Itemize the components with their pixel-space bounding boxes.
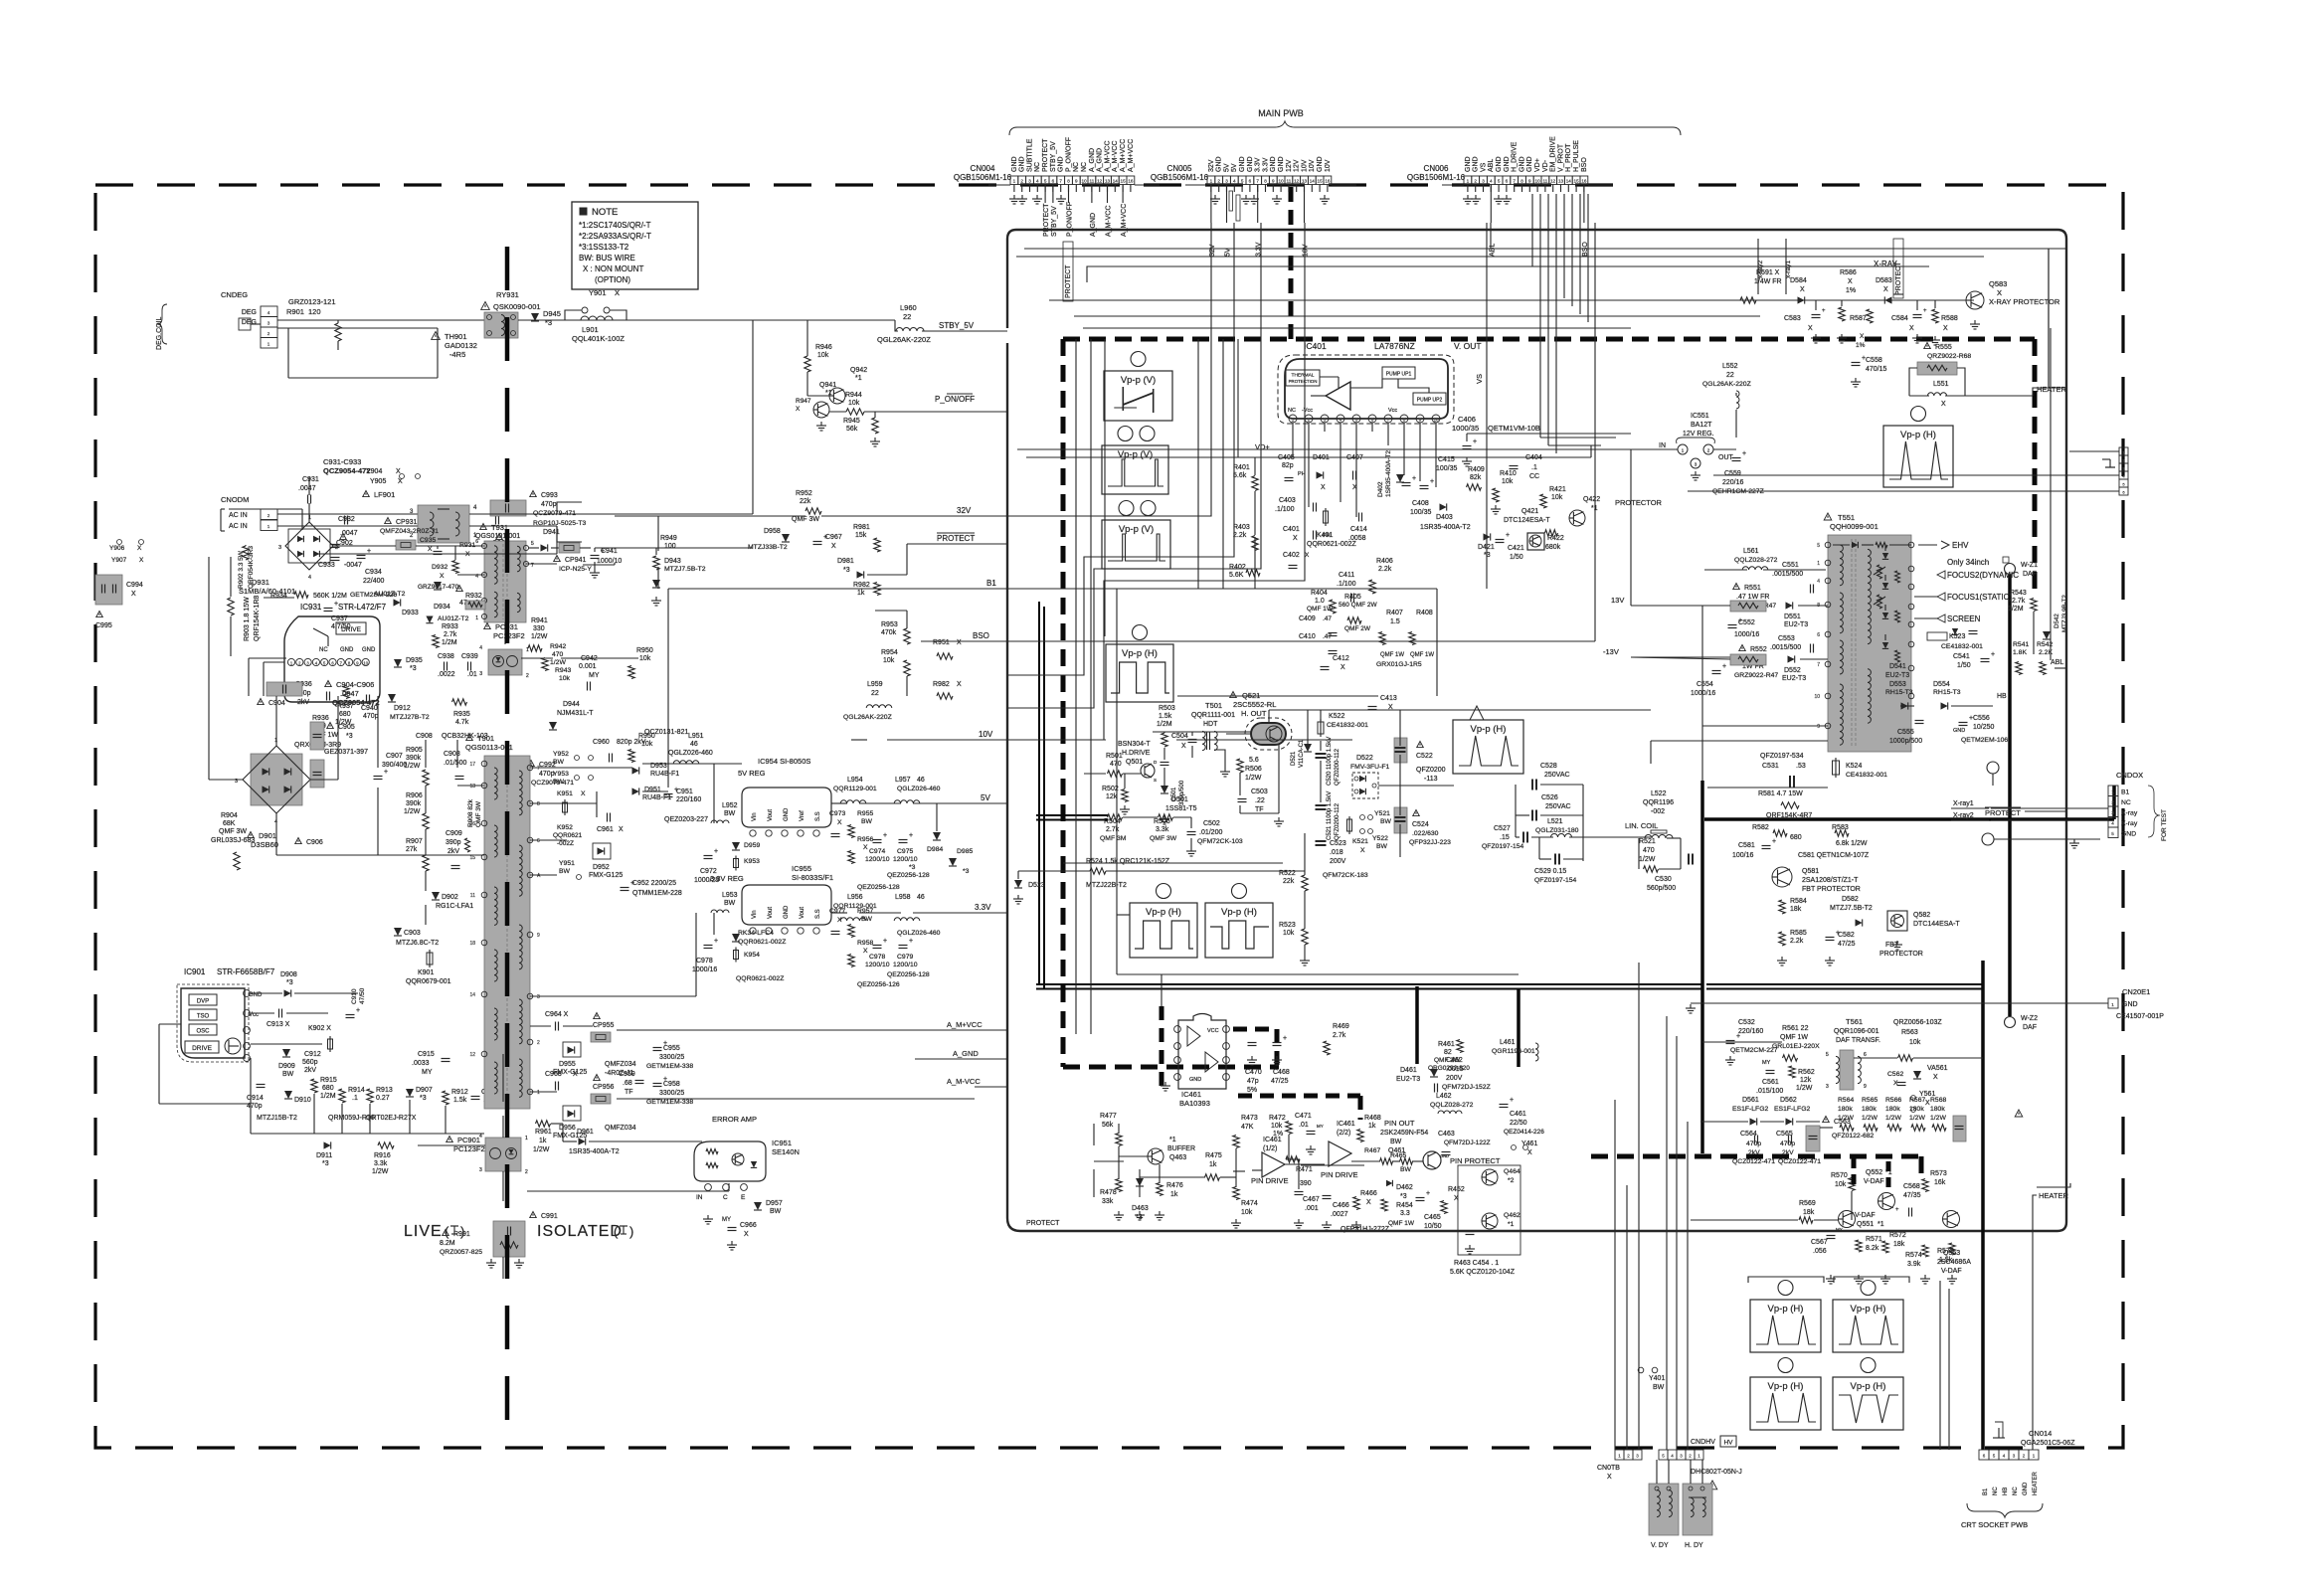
svg-text:.0047: .0047 — [298, 485, 316, 492]
svg-text:180k: 180k — [1909, 1106, 1924, 1113]
svg-text:GND: GND — [1440, 1153, 1449, 1158]
wire fan 4 — [1049, 299, 1870, 301]
svg-text:3: 3 — [278, 545, 281, 551]
svg-text:R502: R502 — [1102, 786, 1119, 792]
svg-text:X: X — [615, 288, 620, 297]
fuse K523 — [1927, 632, 1947, 640]
svg-text:C470: C470 — [1245, 1069, 1262, 1076]
svg-text:R587: R587 — [1850, 315, 1867, 322]
capacitor C964 X — [555, 1022, 557, 1031]
svg-text:1/2W: 1/2W — [1639, 856, 1656, 863]
svg-text:R478: R478 — [1100, 1189, 1117, 1196]
svg-text:FMX-G125: FMX-G125 — [589, 872, 623, 879]
svg-text:*1: *1 — [1508, 1221, 1515, 1228]
svg-text:P_ON/OFF: P_ON/OFF — [1065, 137, 1072, 172]
svg-text:QGA2501C5-06Z: QGA2501C5-06Z — [2021, 1440, 2075, 1447]
svg-text:2SC4686A: 2SC4686A — [1937, 1259, 1971, 1266]
svg-text:A_M-VCC: A_M-VCC — [947, 1077, 981, 1086]
waveform box BR3 — [1750, 1377, 1821, 1430]
svg-text:32V: 32V — [1209, 244, 1216, 257]
wires AC filter out — [469, 513, 557, 515]
svg-text:200V: 200V — [1446, 1075, 1463, 1082]
svg-text:R982: R982 — [933, 681, 950, 688]
svg-text:*3: *3 — [909, 864, 916, 871]
svg-text:IC461: IC461 — [1337, 1121, 1355, 1128]
svg-text:2SA1208/ST/Z1-T: 2SA1208/ST/Z1-T — [1802, 877, 1859, 884]
svg-text:IC551: IC551 — [1691, 413, 1709, 420]
flyback internal resistors — [1895, 571, 1900, 583]
heavy vertical wire C531 feed — [1700, 781, 1704, 1153]
svg-text:C934: C934 — [365, 569, 382, 576]
svg-text:680: 680 — [339, 711, 351, 718]
svg-text:R477: R477 — [1100, 1113, 1117, 1120]
svg-text:2: 2 — [1308, 418, 1311, 423]
svg-text:C933: C933 — [318, 562, 335, 569]
svg-text:47/25: 47/25 — [1271, 1078, 1289, 1085]
svg-text:*3:1SS133-T2: *3:1SS133-T2 — [579, 243, 629, 252]
svg-text:GND: GND — [1239, 156, 1246, 172]
svg-text:X-RAY: X-RAY — [1874, 260, 1898, 268]
IC IC461 BA10393 dual comparator — [1178, 1014, 1226, 1090]
svg-text:C413: C413 — [1380, 695, 1397, 702]
wire heater right — [2033, 1195, 2037, 1450]
svg-text:T501: T501 — [1205, 701, 1222, 710]
bold dashed boundary bottom — [1063, 1065, 1279, 1070]
svg-text:Y907: Y907 — [111, 557, 127, 564]
svg-text:X: X — [1933, 1074, 1938, 1081]
wire fan 6 — [1083, 327, 1631, 329]
svg-text:TH901: TH901 — [445, 332, 467, 341]
svg-text:NJM431L-T: NJM431L-T — [557, 710, 594, 717]
svg-text:R941: R941 — [531, 617, 548, 624]
diode D984 — [933, 832, 941, 840]
svg-text:W-Z2: W-Z2 — [2021, 1015, 2038, 1022]
diode D961 — [579, 1138, 586, 1144]
svg-text:10k: 10k — [817, 352, 829, 359]
main PWB solid outline box — [1007, 230, 2066, 1231]
svg-text:5.6K: 5.6K — [1229, 572, 1244, 579]
svg-text:R570: R570 — [1831, 1172, 1848, 1179]
svg-text:47p: 47p — [1247, 1078, 1259, 1085]
svg-text:4: 4 — [1490, 179, 1493, 184]
svg-text:C567: C567 — [1811, 1239, 1828, 1246]
svg-text:IC461: IC461 — [1263, 1137, 1282, 1143]
svg-text:5: 5 — [1498, 179, 1501, 184]
svg-text:4.7k: 4.7k — [455, 719, 469, 726]
wire right column x1712 up — [1701, 606, 1703, 781]
wire ABL right vertical — [2050, 328, 2052, 660]
svg-text:QETM2EM-106: QETM2EM-106 — [1961, 737, 2008, 744]
svg-text:C562: C562 — [1887, 1071, 1903, 1078]
svg-text:-113: -113 — [1424, 776, 1438, 783]
svg-text:2: 2 — [1217, 179, 1220, 184]
svg-text:H. OUT: H. OUT — [1241, 709, 1267, 718]
svg-text:22: 22 — [1726, 372, 1734, 379]
svg-text:SCREEN: SCREEN — [1947, 614, 1981, 623]
svg-text:.01: .01 — [467, 671, 477, 678]
svg-text:-4R5: -4R5 — [449, 350, 465, 359]
optocoupler PC931 — [484, 623, 491, 629]
svg-text:*1: *1 — [855, 375, 862, 382]
svg-text:13: 13 — [469, 784, 475, 789]
svg-text:BA10393: BA10393 — [1179, 1099, 1210, 1108]
svg-text:D912: D912 — [394, 705, 411, 712]
wire 32V drop — [1007, 223, 1211, 516]
capacitor C524 gray — [1394, 807, 1407, 833]
svg-text:GND: GND — [2023, 1482, 2029, 1495]
svg-text:-13V: -13V — [1603, 647, 1619, 656]
wire mid horizontal 700 — [1177, 695, 1378, 697]
svg-text:GND: GND — [1504, 156, 1511, 172]
svg-text:HEATER: HEATER — [2033, 1471, 2039, 1495]
svg-text:C526: C526 — [1541, 794, 1558, 801]
svg-text:R567: R567 — [1909, 1097, 1925, 1104]
svg-text:GND: GND — [1278, 156, 1285, 172]
svg-text:1/2M: 1/2M — [320, 1093, 336, 1100]
svg-text:1/2W: 1/2W — [1862, 1115, 1877, 1122]
svg-text:R954: R954 — [881, 649, 898, 656]
svg-text:T561: T561 — [1846, 1017, 1863, 1026]
svg-text:NC: NC — [1288, 408, 1296, 414]
svg-text:ABL: ABL — [1488, 159, 1495, 172]
svg-text:R949: R949 — [660, 535, 677, 542]
svg-text:QGLZ026-460: QGLZ026-460 — [897, 786, 941, 792]
svg-text:R524 1.5k QRC121K-152Z: R524 1.5k QRC121K-152Z — [1086, 858, 1170, 865]
capacitor C941 — [591, 555, 600, 557]
diode D956 boxed — [563, 1106, 581, 1121]
capacitor C991 — [530, 1212, 537, 1218]
svg-text:QQLZ028-272: QQLZ028-272 — [1430, 1102, 1474, 1109]
EHV output arrow — [1918, 544, 1937, 546]
svg-text:C973: C973 — [829, 810, 845, 817]
svg-text:4: 4 — [308, 575, 311, 581]
svg-text:2.7k: 2.7k — [1333, 1032, 1346, 1039]
svg-text:7: 7 — [1059, 179, 1062, 184]
svg-text:QETM2CM-227: QETM2CM-227 — [1730, 1047, 1778, 1054]
svg-text:R503: R503 — [1159, 705, 1175, 712]
svg-text:100/35: 100/35 — [1436, 465, 1458, 472]
svg-text:L552: L552 — [1722, 363, 1738, 370]
waveform box Vp-p V pulses — [1102, 445, 1168, 494]
wire T501 rail — [1153, 731, 1269, 733]
svg-text:10k: 10k — [1283, 930, 1295, 937]
svg-text:C939: C939 — [461, 653, 478, 660]
svg-text:A_GND: A_GND — [953, 1049, 979, 1058]
svg-text:+: + — [1283, 1035, 1287, 1042]
svg-text:.01/500: .01/500 — [444, 760, 466, 767]
svg-text:12: 12 — [1550, 179, 1556, 184]
svg-text:IC401: IC401 — [1304, 341, 1327, 351]
svg-text:QQL401K-100Z: QQL401K-100Z — [572, 334, 625, 343]
chassis ground CN014 — [1998, 1428, 2000, 1438]
svg-text:C410: C410 — [1299, 633, 1316, 640]
wire stby to L960 — [895, 320, 898, 331]
svg-text:K952: K952 — [557, 824, 573, 831]
svg-text:QRZ9022-R68: QRZ9022-R68 — [1927, 353, 1971, 360]
svg-text:BW: BW — [1376, 843, 1388, 850]
svg-text:4: 4 — [479, 645, 482, 651]
wires CN006 drop bends — [1540, 437, 1616, 439]
capacitor C905 — [310, 722, 324, 750]
svg-text:+: + — [883, 832, 887, 839]
resistor R937 680 1/2W — [343, 686, 349, 699]
svg-text:DVP: DVP — [197, 999, 209, 1005]
svg-text:QRG029J-820: QRG029J-820 — [1428, 1065, 1470, 1072]
svg-text:1/2W: 1/2W — [1796, 1085, 1813, 1092]
svg-text:D956: D956 — [559, 1125, 576, 1132]
diode D952 FMX-G125 boxed — [593, 843, 611, 859]
svg-text:13: 13 — [1105, 179, 1111, 184]
wire 920 row — [1117, 914, 1130, 916]
wires secondary — [530, 767, 632, 769]
svg-text:QRF154K-1R8: QRF154K-1R8 — [254, 596, 261, 641]
svg-text:1/2W: 1/2W — [1909, 1115, 1925, 1122]
svg-text:IC954 SI-8050S: IC954 SI-8050S — [758, 757, 810, 766]
svg-text:.015/100: .015/100 — [1756, 1088, 1783, 1095]
svg-text:R521: R521 — [1639, 838, 1656, 845]
svg-text:C527: C527 — [1494, 825, 1511, 832]
wire PC931 row — [521, 657, 553, 659]
svg-text:1: 1 — [1817, 561, 1820, 567]
svg-text:470p: 470p — [541, 501, 557, 508]
svg-text:Y521: Y521 — [1374, 810, 1390, 817]
svg-text:D584: D584 — [1790, 277, 1807, 284]
svg-text:.53: .53 — [1796, 763, 1806, 770]
svg-text:1%: 1% — [1273, 1131, 1283, 1138]
svg-text:*3: *3 — [420, 1095, 427, 1102]
svg-text:3: 3 — [1482, 179, 1485, 184]
svg-text:1/2W: 1/2W — [1930, 1115, 1946, 1122]
svg-text:R401: R401 — [1233, 464, 1250, 471]
svg-text:10k: 10k — [639, 655, 651, 662]
svg-text:R571: R571 — [1866, 1236, 1882, 1243]
waveform boxes mid pair — [1130, 903, 1197, 958]
svg-text:L954: L954 — [847, 777, 863, 784]
svg-text:C975: C975 — [897, 848, 913, 855]
svg-text:R955: R955 — [857, 810, 873, 817]
svg-text:C523: C523 — [1330, 840, 1346, 847]
svg-text:+: + — [1822, 308, 1826, 314]
svg-text:D403: D403 — [1436, 514, 1453, 521]
svg-text:GND: GND — [1317, 156, 1324, 172]
flyback pins right — [1908, 542, 1914, 548]
wire BSO inside box — [1007, 640, 1595, 642]
svg-text:X: X — [581, 790, 586, 797]
svg-text:1: 1 — [1292, 418, 1295, 423]
svg-text:MY: MY — [1836, 1227, 1843, 1232]
bold dashed boundary right vertical — [2033, 339, 2038, 590]
wires lower flyback — [1702, 725, 1828, 727]
svg-text:*3: *3 — [1400, 1193, 1407, 1200]
x-ray wires — [1730, 299, 1974, 301]
svg-text:.0022: .0022 — [438, 671, 455, 678]
svg-text:H.DRIVE: H.DRIVE — [1122, 750, 1151, 757]
svg-text:L960: L960 — [900, 303, 917, 312]
svg-text:8: 8 — [1403, 418, 1406, 423]
capacitor C961 X — [607, 813, 609, 822]
svg-text:R907: R907 — [406, 838, 423, 845]
svg-text:DEG: DEG — [242, 319, 257, 326]
wire A_M+VCC rail — [529, 1025, 531, 1027]
svg-text:CRT SOCKET PWB: CRT SOCKET PWB — [1961, 1520, 2028, 1529]
svg-text:C504: C504 — [1171, 733, 1188, 740]
svg-text:47/35: 47/35 — [1903, 1192, 1921, 1199]
svg-text:QSK0090-001: QSK0090-001 — [493, 302, 541, 311]
svg-text:B1: B1 — [2121, 789, 2130, 796]
svg-text:RH15-T3: RH15-T3 — [1885, 689, 1913, 696]
capacitor gray right of chain — [1953, 1116, 1966, 1141]
svg-text:R916: R916 — [374, 1152, 391, 1159]
capacitor C552 1000/16 — [1728, 624, 1737, 626]
svg-text:.47 1W FR: .47 1W FR — [1736, 594, 1769, 601]
svg-text:R541: R541 — [2013, 641, 2029, 648]
connector CN005 ground symbols — [1214, 195, 1216, 199]
svg-text:QQR0679-001: QQR0679-001 — [406, 978, 451, 985]
diode D951 RU4B-F1 — [632, 788, 639, 794]
diode D957 BW — [754, 1202, 762, 1210]
wire 32V — [821, 515, 1007, 517]
svg-text:1: 1 — [268, 524, 270, 529]
svg-text:QMF 1W: QMF 1W — [1388, 1220, 1415, 1227]
svg-text:9: 9 — [1528, 179, 1531, 184]
svg-text:18: 18 — [469, 941, 475, 947]
svg-text:NC: NC — [319, 647, 328, 653]
wires pin drive — [1094, 1160, 1124, 1162]
bold dashed boundary horizontal top — [1063, 337, 2035, 342]
svg-text:390p: 390p — [446, 839, 461, 846]
svg-text:D935: D935 — [406, 657, 423, 664]
svg-text:3: 3 — [1324, 418, 1327, 423]
svg-text:X: X — [139, 557, 144, 564]
svg-text:Vp-p (V): Vp-p (V) — [1121, 375, 1156, 386]
bold dashed boundary left vertical — [1061, 339, 1066, 1067]
inductor L901 — [581, 316, 613, 320]
isolation link vertical wire — [502, 1054, 504, 1102]
svg-text:Vin: Vin — [752, 812, 758, 821]
svg-text:C958: C958 — [663, 1081, 680, 1088]
svg-text:1: 1 — [268, 342, 270, 347]
svg-text:C408: C408 — [1412, 500, 1429, 507]
line filter LF901 — [363, 491, 370, 497]
svg-text:.0027: .0027 — [1331, 1211, 1348, 1218]
svg-text:C904-C906: C904-C906 — [336, 680, 374, 689]
waveform box Vp-p H sq — [1106, 644, 1173, 702]
svg-text:X: X — [1848, 278, 1853, 285]
svg-text:5%: 5% — [1247, 1087, 1257, 1094]
diode D945 — [531, 313, 539, 321]
capacitor C902 — [344, 516, 346, 525]
svg-text:4.7/50: 4.7/50 — [331, 623, 351, 630]
svg-text:R944: R944 — [845, 392, 862, 399]
svg-text:2.7k: 2.7k — [1106, 826, 1120, 833]
svg-text:Vp-p (V): Vp-p (V) — [1118, 449, 1153, 460]
svg-text:10: 10 — [1082, 179, 1088, 184]
svg-text:): ) — [629, 1224, 633, 1239]
svg-text:R476: R476 — [1166, 1182, 1183, 1189]
bridge rectifier D931 — [285, 522, 333, 570]
svg-text:X: X — [1808, 325, 1813, 332]
svg-text:RU4B-F1: RU4B-F1 — [650, 771, 679, 778]
svg-text:R506: R506 — [1245, 766, 1262, 773]
svg-text:*1:2SC1740S/QR/-T: *1:2SC1740S/QR/-T — [579, 221, 651, 230]
svg-text:C561: C561 — [1762, 1079, 1779, 1086]
svg-text:H_PROT: H_PROT — [1565, 143, 1572, 172]
wire R949 column — [657, 516, 659, 551]
svg-text:QFP31HJ-272Z: QFP31HJ-272Z — [1341, 1226, 1390, 1233]
svg-text:MTZJ15B-T2: MTZJ15B-T2 — [257, 1115, 297, 1122]
svg-text:PROTECT: PROTECT — [1985, 808, 2021, 817]
svg-text:QEZ0256-126: QEZ0256-126 — [857, 981, 900, 988]
transistor Q582 DTC144ESA-T — [1887, 911, 1907, 931]
svg-text:3: 3 — [1225, 179, 1228, 184]
svg-text:NOTE: NOTE — [592, 207, 618, 218]
svg-text:CN0TB: CN0TB — [1597, 1465, 1620, 1472]
svg-text:C553: C553 — [1778, 635, 1795, 642]
svg-text:680: 680 — [322, 1085, 334, 1092]
svg-text:QQR1196: QQR1196 — [1643, 799, 1674, 806]
svg-text:1/2W: 1/2W — [1885, 1115, 1901, 1122]
svg-text:DEG: DEG — [242, 309, 257, 316]
svg-text:Only 34inch: Only 34inch — [1947, 558, 1989, 567]
svg-text:ERROR AMP: ERROR AMP — [712, 1115, 757, 1124]
wire STBY_5V to box — [922, 330, 1007, 332]
svg-text:2: 2 — [268, 331, 270, 336]
svg-text:470: 470 — [552, 651, 564, 658]
svg-text:*3: *3 — [286, 979, 293, 986]
svg-text:V-DAF: V-DAF — [1864, 1178, 1884, 1185]
bridge rectifier D901 — [251, 754, 302, 805]
svg-text:3.3k: 3.3k — [1156, 826, 1169, 833]
svg-text:AU01Z-T2: AU01Z-T2 — [374, 591, 406, 598]
svg-text:1/2M: 1/2M — [442, 639, 457, 646]
svg-text:X: X — [1860, 333, 1865, 340]
FOCUS1 output — [1937, 593, 1945, 601]
svg-text:VCC: VCC — [1207, 1028, 1219, 1034]
svg-text:QQR0621-002Z: QQR0621-002Z — [1307, 541, 1357, 548]
svg-text:R463 C454 . 1: R463 C454 . 1 — [1454, 1260, 1499, 1267]
svg-text:C402: C402 — [1283, 552, 1300, 559]
svg-text:R467: R467 — [1364, 1147, 1380, 1154]
svg-text:D958: D958 — [764, 528, 781, 535]
svg-text:Y901: Y901 — [589, 288, 607, 297]
svg-text:R573: R573 — [1930, 1170, 1947, 1177]
svg-text:PC901: PC901 — [457, 1136, 480, 1144]
svg-text:C421: C421 — [1508, 545, 1524, 552]
svg-text:HB: HB — [1997, 693, 2007, 700]
svg-text:S.S: S.S — [815, 909, 821, 919]
diode D955 boxed — [563, 1042, 581, 1057]
CN005 fuse resistor details — [1236, 195, 1240, 221]
svg-text:3: 3 — [479, 671, 482, 677]
svg-text:5: 5 — [1044, 179, 1047, 184]
svg-text:11: 11 — [1543, 179, 1548, 184]
svg-text:R903 1.8 15W: R903 1.8 15W — [244, 597, 251, 641]
svg-text:A_GND: A_GND — [1090, 213, 1097, 237]
svg-text:VS: VS — [1480, 162, 1487, 172]
svg-text:Vout: Vout — [768, 809, 774, 821]
svg-text:GRZ9017-470: GRZ9017-470 — [418, 584, 459, 591]
svg-text:680: 680 — [1790, 834, 1802, 841]
svg-text:680k: 680k — [1545, 544, 1561, 551]
svg-text:T551: T551 — [1838, 513, 1855, 522]
connector CN006 ground symbols — [1467, 195, 1469, 199]
svg-text:2.2k: 2.2k — [1378, 566, 1392, 573]
svg-text:C935: C935 — [420, 537, 436, 544]
svg-text:Q422: Q422 — [1583, 496, 1600, 503]
svg-text:5: 5 — [1826, 1052, 1829, 1058]
svg-text:.056: .056 — [1813, 1248, 1827, 1255]
svg-text:QEZ0256-128: QEZ0256-128 — [857, 884, 900, 891]
